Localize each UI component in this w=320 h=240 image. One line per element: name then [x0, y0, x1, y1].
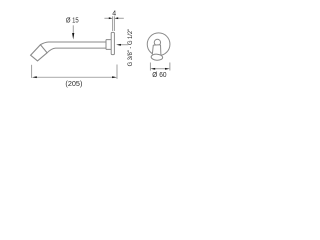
front view: spout opening ellipse [151, 54, 163, 61]
svg-text:(205): (205) [65, 79, 82, 88]
dimension Ø60: extension lines [150, 63, 170, 71]
front view: flange circle Ø60 [147, 33, 170, 56]
svg-text:G 3/8" - G 1/2": G 3/8" - G 1/2" [127, 29, 134, 67]
front view: sleeve body [152, 45, 161, 55]
wall connector step [106, 40, 111, 50]
thread spec leader arrow [116, 44, 128, 46]
wall flange plate (side view) [111, 32, 114, 54]
svg-text:4: 4 [112, 10, 116, 17]
spout side view: horizontal tube [40, 42, 106, 53]
dimension 4: dimension line with inward arrows [104, 16, 123, 31]
front view: tube end small circle [154, 39, 160, 45]
spout side view: angled tip sleeve [31, 45, 47, 61]
svg-text:Ø 15: Ø 15 [66, 16, 79, 25]
extension lines for 4 [112, 16, 114, 31]
dimension (205): extension lines [32, 65, 117, 79]
dimension Ø15: leader arrow down to tube [72, 25, 74, 39]
svg-text:Ø 60: Ø 60 [152, 70, 166, 79]
dimension (205): dimension line with arrows [32, 76, 117, 78]
dimension Ø60: dimension line with arrows [151, 68, 170, 70]
